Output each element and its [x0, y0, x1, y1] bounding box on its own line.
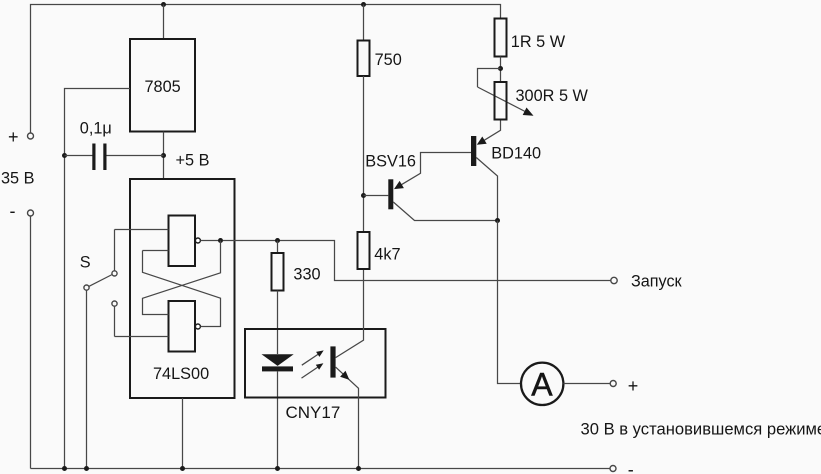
node: phototransistor emitter at bottom rail: [356, 466, 361, 471]
LED D1 anode triangle (optocoupler): [262, 354, 294, 366]
terminal: - output: [610, 466, 616, 472]
svg-text:BD140: BD140: [491, 145, 541, 163]
resistor R5 1R 5W body: [495, 19, 507, 57]
svg-text:+: +: [8, 127, 19, 147]
svg-text:-: -: [628, 460, 634, 474]
wire: 330 bottom lead into optocoupler LED anode: [277, 291, 279, 355]
wire: latch output right, jog down, to start terminal: [223, 241, 611, 281]
nand gate U2a body: [169, 216, 196, 267]
switch S lever arm: [89, 275, 112, 287]
svg-text:750: 750: [375, 51, 402, 69]
switch S lower contact: [112, 301, 117, 306]
capacitor C1 0,1u right plate: [103, 144, 106, 171]
wire: 1R bottom lead to wiper node: [500, 57, 502, 83]
wire: LED cathode down to bottom rail: [277, 371, 279, 468]
node: latch output to 330 resistor junction: [275, 238, 280, 243]
wire: 750 bottom lead down to BSV16 base node and 4k7: [363, 76, 365, 232]
svg-text:1R 5 W: 1R 5 W: [511, 33, 566, 51]
wire: U2a output to latch node: [200, 240, 220, 242]
terminal: +35V input: [28, 133, 34, 139]
ammeter A1 circle: [521, 363, 563, 405]
node: latch output Q: [218, 238, 223, 243]
svg-text:30 В в установившемся режиме: 30 В в установившемся режиме: [581, 420, 821, 439]
light arrow 1: [302, 354, 319, 365]
wire: collector node down to ammeter: [498, 221, 521, 384]
wire: 7805 input pin from top rail: [163, 5, 165, 40]
LED D1 cathode bar: [262, 366, 293, 371]
potentiometer R6 300R body: [495, 82, 507, 120]
wire: ammeter to + output terminal: [563, 383, 610, 385]
svg-text:4k7: 4k7: [374, 246, 400, 264]
svg-text:7805: 7805: [145, 78, 181, 96]
svg-text:-: -: [10, 201, 16, 221]
capacitor C1 0,1u left plate: [92, 144, 95, 171]
wire: BSV16 base lead: [364, 195, 389, 197]
node: BSV16 base junction: [361, 193, 366, 198]
potentiometer R6 300R wiper arrow diagonal: [478, 87, 530, 114]
wire: cross coupling Q down and diagonal to U2b input: [143, 241, 221, 315]
svg-text:Запуск: Запуск: [631, 272, 683, 290]
regulator U1 7805: [130, 39, 195, 132]
wire: switch lower contact down to U2b input: [114, 306, 116, 336]
wire: 7805 ground pin left then down to bottom rail: [65, 89, 131, 469]
terminal: -35V input: [28, 210, 34, 216]
wire: switch upper contact up to U2a input: [114, 230, 116, 271]
wire: bottom ground rail: [31, 468, 611, 470]
svg-text:0,1μ: 0,1μ: [80, 119, 112, 137]
wire: U2b output up and diagonal to U2a input: [143, 251, 221, 327]
nand gate U2a inversion bubble: [195, 238, 200, 243]
node: 74LS00 ground at bottom rail: [180, 466, 185, 471]
BD140 emitter arrow (PNP): [477, 137, 487, 145]
node: BD140/BSV16 collector junction: [495, 218, 500, 223]
wire: wiper bracket from junction: [478, 69, 501, 88]
svg-text:CNY17: CNY17: [286, 403, 341, 422]
node: LED cathode at bottom rail: [275, 466, 280, 471]
wire: phototransistor emitter diagonal with arrow: [336, 367, 359, 468]
wire: U2b input 2 from switch lower contact: [115, 336, 169, 338]
svg-text:BSV16: BSV16: [365, 152, 416, 170]
wire: U2a input 2 from cross coupling: [143, 250, 169, 252]
BSV16 emitter arrow (PNP): [394, 181, 404, 189]
wire: capacitor right lead to +5V node: [107, 155, 164, 157]
wire: capacitor left lead: [65, 155, 93, 157]
svg-text:35 В: 35 В: [1, 170, 35, 188]
svg-text:+5 В: +5 В: [176, 151, 210, 169]
wire: U2a input 1 from switch upper contact: [115, 229, 169, 231]
svg-text:74LS00: 74LS00: [153, 365, 209, 383]
nand gate U2b body: [169, 301, 196, 352]
svg-text:330: 330: [293, 266, 320, 284]
switch S common pole: [84, 285, 89, 290]
node: switch common at bottom rail: [84, 466, 89, 471]
node: +5V junction: [161, 153, 166, 158]
terminal: Zapusk (start): [611, 277, 617, 283]
wire: 330 resistor top lead: [277, 241, 279, 254]
phototransistor Q3 base bar: [330, 346, 335, 377]
wire: BSV16 collector diagonal then to BD140 collector node: [393, 202, 497, 221]
wire: phototransistor collector diagonal to 4k7 line: [336, 269, 364, 358]
light arrow 2: [302, 367, 319, 378]
node: ground rail junction at 7805 ground: [62, 466, 67, 471]
switch S upper contact: [112, 271, 117, 276]
node: top rail to 7805 input junction: [161, 2, 166, 7]
nand gate U2b inversion bubble: [195, 324, 200, 329]
svg-text:S: S: [80, 254, 91, 272]
wire: BD140 emitter from 300R: [480, 120, 501, 144]
svg-text:300R 5 W: 300R 5 W: [516, 87, 589, 105]
svg-text:A: A: [531, 366, 553, 402]
node: ground line to capacitor junction: [62, 153, 67, 158]
wire: 7805 +5V output pin down to 74LS00: [163, 132, 165, 180]
wire: switch common down to bottom rail: [86, 290, 88, 468]
optocoupler U3 CNY17 package box: [245, 329, 386, 398]
svg-text:+: +: [628, 376, 639, 396]
wire: BSV16 emitter to BD140 base: [397, 153, 471, 188]
node: 1R / 300R wiper junction: [498, 66, 503, 71]
terminal: + output: [610, 381, 616, 387]
resistor R4 4k7 body: [358, 232, 370, 269]
transistor Q1 BSV16 base bar: [388, 179, 393, 209]
resistor R2 750 body: [358, 41, 370, 77]
wire: BD140 collector diagonal down to collector node: [476, 158, 497, 221]
node: top rail to 750 junction: [361, 2, 366, 7]
resistor R3 330 body: [272, 253, 284, 291]
wire: +35V top rail: [31, 5, 501, 134]
wire: -input terminal down to bottom rail: [30, 216, 32, 469]
transistor Q2 BD140 base bar: [471, 136, 476, 166]
wire: 74LS00 ground pin to bottom rail: [182, 398, 184, 469]
wire: 750 top lead from top rail: [363, 5, 365, 41]
IC U2 74LS00 package box: [130, 179, 235, 398]
